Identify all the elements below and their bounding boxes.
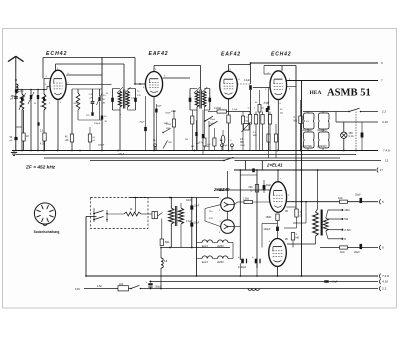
svg-text:2000: 2000	[73, 103, 79, 105]
svg-text:2.2: 2.2	[382, 287, 387, 291]
svg-text:2B: 2B	[285, 239, 288, 241]
svg-text:HEA: HEA	[310, 90, 322, 96]
svg-text:4.10: 4.10	[382, 280, 388, 284]
svg-text:MΩ: MΩ	[196, 143, 200, 145]
svg-text:190µF: 190µF	[118, 154, 125, 156]
svg-text:ECH42: ECH42	[46, 51, 67, 57]
svg-text:4.5A: 4.5A	[97, 285, 102, 288]
svg-text:2.5Ω: 2.5Ω	[344, 228, 351, 232]
svg-text:HD: HD	[208, 144, 212, 146]
svg-text:0.1µF: 0.1µF	[264, 102, 270, 104]
svg-text:5: 5	[38, 211, 39, 213]
svg-text:260µF: 260µF	[98, 145, 105, 147]
svg-text:EL41: EL41	[202, 245, 208, 248]
svg-text:1kΩ: 1kΩ	[340, 251, 345, 254]
svg-text:MΩ: MΩ	[253, 135, 257, 137]
svg-text:4.10: 4.10	[382, 120, 388, 124]
svg-text:+: +	[252, 255, 254, 259]
svg-text:17: 17	[380, 168, 384, 172]
svg-text:17kΩ: 17kΩ	[166, 124, 172, 126]
svg-text:1.2kΩ: 1.2kΩ	[243, 199, 249, 201]
svg-text:(EAF42): (EAF42)	[318, 145, 327, 148]
svg-text:60pF: 60pF	[171, 111, 177, 113]
svg-text:200µF: 200µF	[94, 123, 101, 125]
svg-text:ZF = 452 kHz: ZF = 452 kHz	[25, 165, 56, 171]
svg-text:12V: 12V	[75, 287, 80, 291]
svg-text:+: +	[238, 255, 240, 259]
svg-text:1B: 1B	[285, 211, 288, 213]
svg-text:1M: 1M	[185, 139, 188, 141]
svg-text:25µF: 25µF	[210, 119, 216, 121]
svg-text:EAF42: EAF42	[149, 51, 169, 57]
svg-text:(EAF42): (EAF42)	[318, 129, 327, 132]
svg-text:MΩ: MΩ	[191, 146, 195, 148]
svg-text:0.1µF: 0.1µF	[232, 109, 238, 111]
svg-text:EZ40: EZ40	[218, 261, 225, 264]
svg-text:Sockelschaltung: Sockelschaltung	[34, 230, 60, 234]
svg-text:EL41: EL41	[202, 261, 208, 264]
svg-text:ASMB 51: ASMB 51	[327, 87, 371, 98]
svg-text:60pF: 60pF	[157, 106, 163, 108]
svg-text:6: 6	[42, 207, 43, 209]
svg-text:10A: 10A	[119, 283, 124, 286]
svg-text:1MΩ: 1MΩ	[240, 145, 245, 147]
svg-text:ECH42: ECH42	[271, 52, 291, 58]
svg-text:4.10: 4.10	[40, 144, 45, 146]
svg-text:kΩ: kΩ	[280, 112, 283, 114]
svg-text:7: 7	[47, 207, 48, 209]
svg-text:10nF: 10nF	[186, 200, 192, 202]
svg-text:EZ40: EZ40	[218, 245, 225, 248]
svg-text:2.2: 2.2	[382, 110, 387, 114]
svg-text:20µF: 20µF	[354, 251, 360, 254]
svg-text:150Ω: 150Ω	[266, 216, 272, 219]
svg-text:5kΩ: 5kΩ	[165, 241, 170, 244]
svg-text:4: 4	[38, 216, 39, 218]
svg-text:MΩ: MΩ	[240, 142, 244, 144]
svg-text:7.4.8: 7.4.8	[382, 274, 389, 278]
svg-text:EAF42: EAF42	[221, 52, 241, 58]
svg-text:1kΩ: 1kΩ	[210, 123, 214, 125]
svg-text:16Ω: 16Ω	[344, 208, 350, 212]
svg-text:3: 3	[42, 219, 43, 221]
svg-text:0.1µF: 0.1µF	[244, 80, 251, 82]
svg-text:20µF: 20µF	[355, 194, 361, 197]
svg-text:(ECH42): (ECH42)	[303, 145, 313, 148]
svg-text:0.1MΩ: 0.1MΩ	[214, 107, 221, 110]
svg-text:0.8µF: 0.8µF	[332, 281, 339, 284]
svg-text:0.1A: 0.1A	[349, 135, 354, 138]
svg-text:8: 8	[50, 211, 51, 213]
svg-text:0.1µF: 0.1µF	[222, 145, 228, 147]
svg-text:0.1µF: 0.1µF	[186, 221, 193, 223]
svg-text:100µF: 100µF	[264, 228, 271, 231]
svg-text:2: 2	[47, 219, 48, 221]
svg-text:63µF: 63µF	[266, 185, 272, 187]
svg-text:MΩ: MΩ	[296, 237, 300, 239]
svg-text:1: 1	[50, 216, 51, 218]
svg-text:(ECH42): (ECH42)	[303, 129, 313, 132]
svg-text:40µF: 40µF	[140, 121, 146, 123]
svg-text:12: 12	[385, 159, 389, 163]
svg-text:20µF: 20µF	[194, 223, 200, 225]
svg-text:2×20µF: 2×20µF	[238, 266, 247, 269]
svg-text:MΩ: MΩ	[294, 120, 298, 122]
svg-text:7.4.8: 7.4.8	[383, 149, 390, 153]
svg-text:GW: GW	[168, 142, 172, 144]
svg-text:2×EL41: 2×EL41	[266, 163, 283, 168]
svg-text:2000: 2000	[18, 91, 25, 93]
svg-text:1kΩ: 1kΩ	[338, 197, 343, 200]
svg-text:1MΩ: 1MΩ	[166, 128, 171, 130]
